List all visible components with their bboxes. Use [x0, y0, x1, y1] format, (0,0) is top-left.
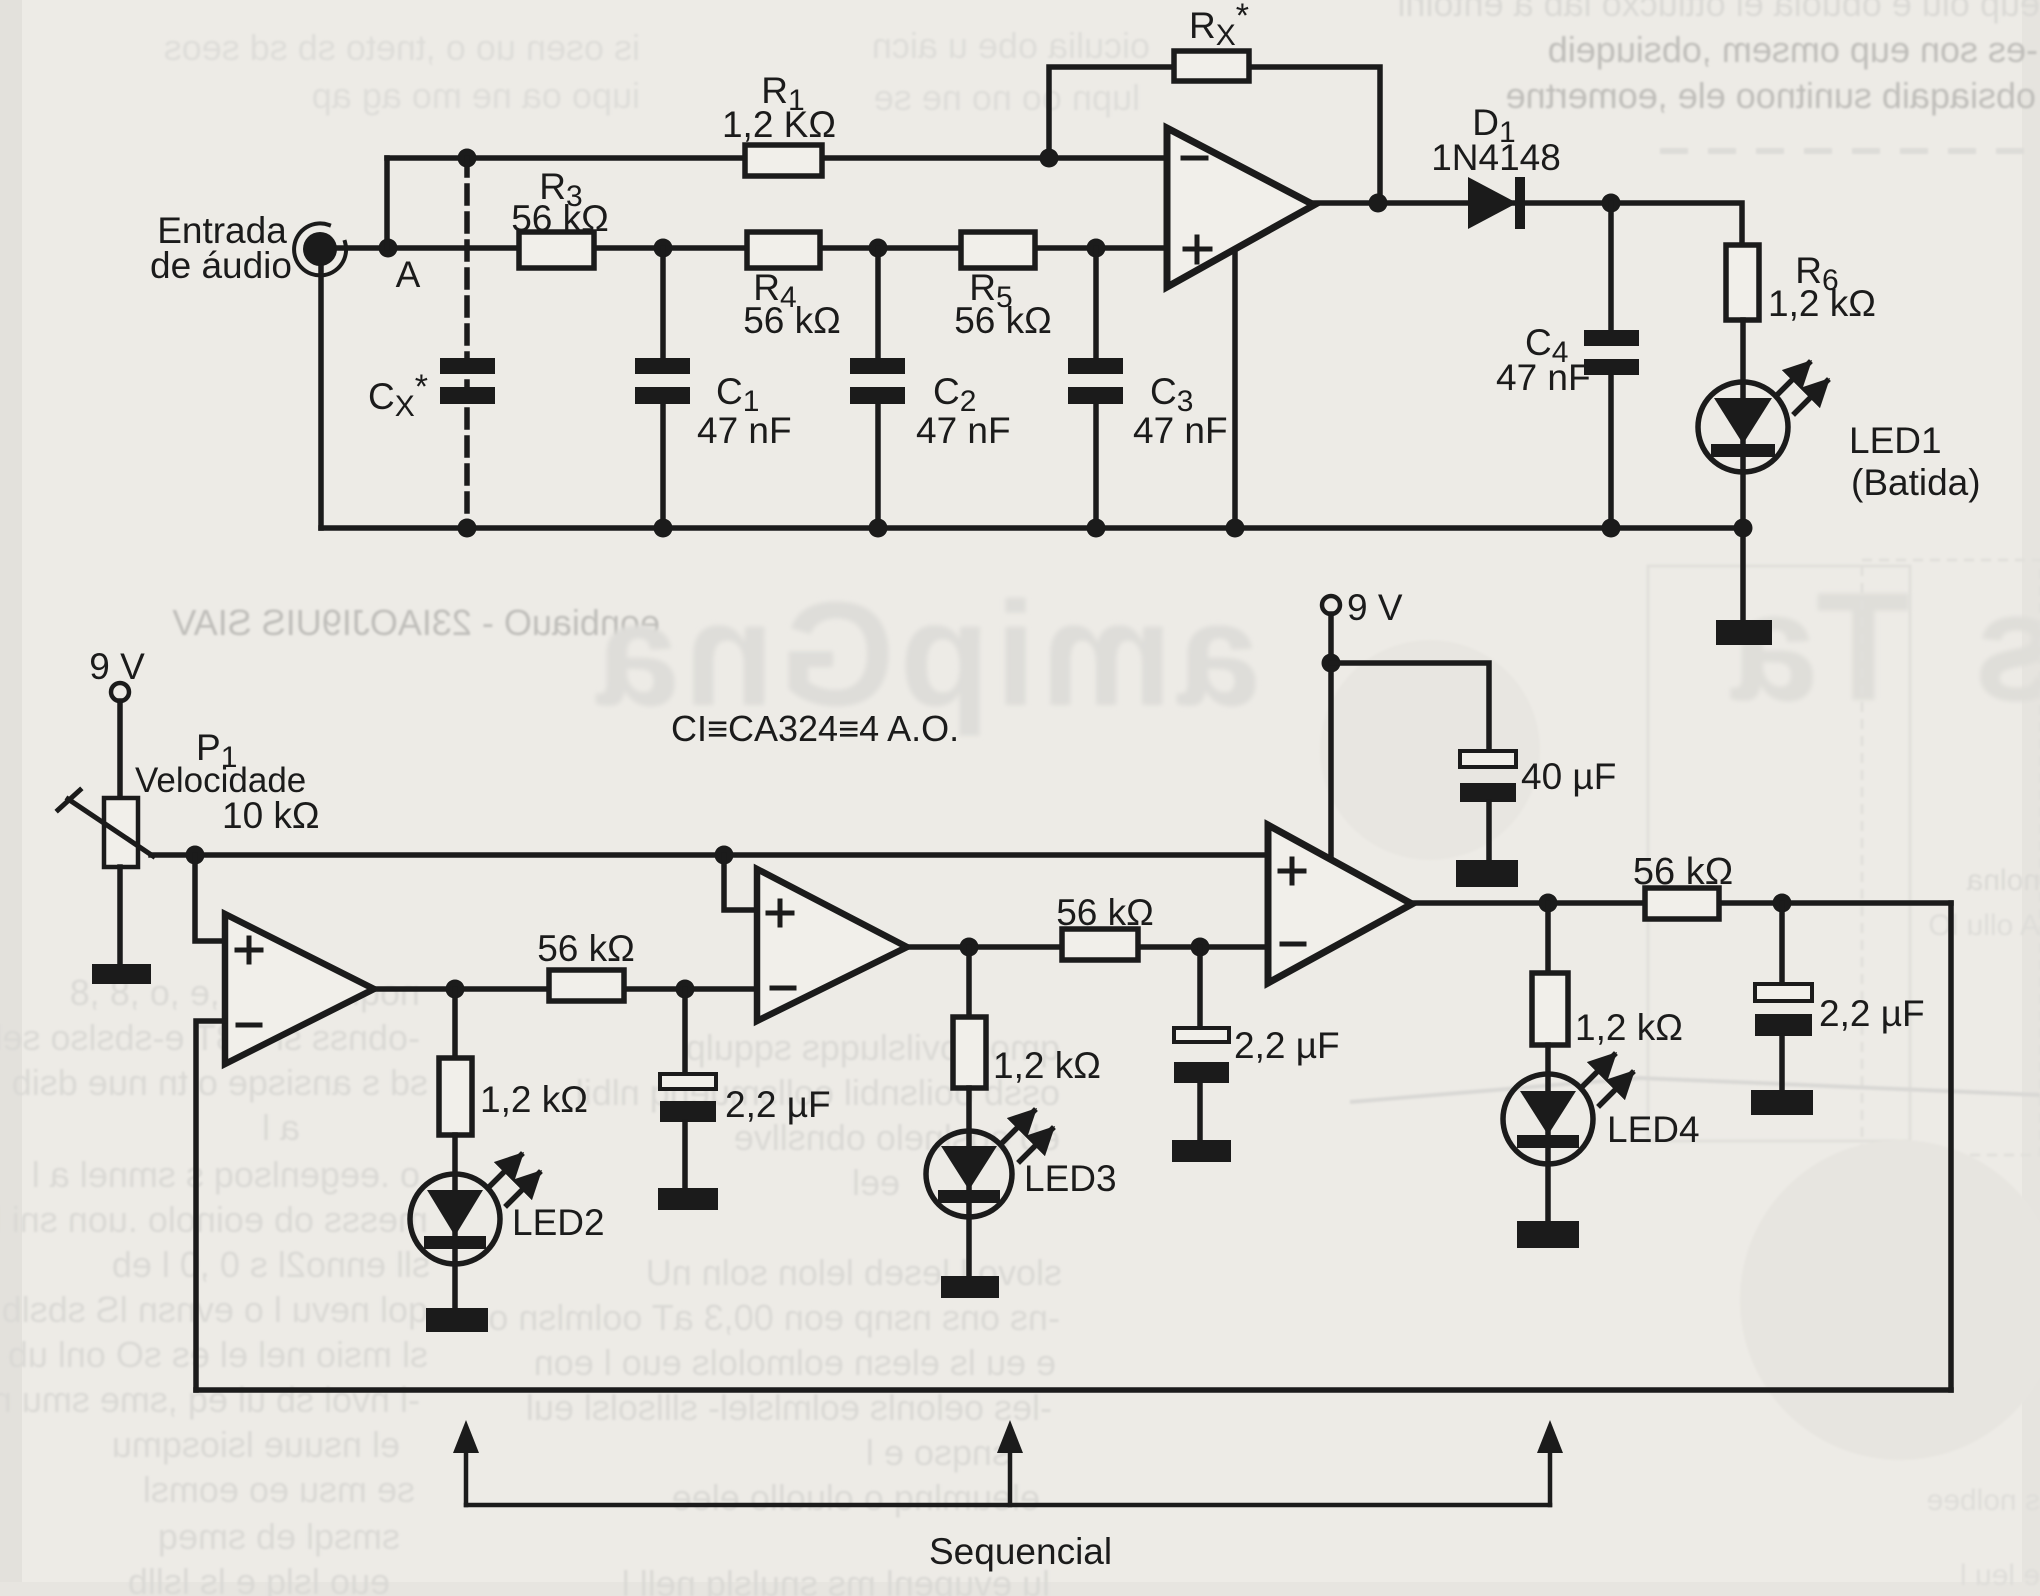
junction U2 output / LED2 branch: [446, 980, 465, 999]
capacitor 2,2 uF stage2: [1174, 947, 1340, 1140]
svg-text:oiculia obe u aicn: oiculia obe u aicn: [872, 25, 1150, 66]
wire bottom sequencer rail: [196, 1387, 1951, 1393]
wire P1 bottom to ground: [117, 867, 123, 964]
svg-text:-l nvol sb ul eq ,sme smu nsq: -l nvol sb ul eq ,sme smu nsq: [0, 1379, 420, 1420]
svg-text:47 nF: 47 nF: [916, 410, 1011, 451]
junction 56k / C5 / U3 inverting: [676, 980, 695, 999]
svg-text:(Batida): (Batida): [1851, 462, 1981, 503]
svg-text:eel: eel: [852, 1162, 900, 1203]
junction dashed line top: [458, 149, 477, 168]
sequencer arrows: [453, 1420, 1563, 1572]
resistor 56 kOhm stage1-stage2: [537, 928, 635, 1001]
resistor R3 56 kOhm: [511, 166, 609, 268]
LED4: [1503, 1055, 1700, 1164]
wire R6 to LED1 to ground: [1740, 320, 1746, 622]
svg-text:1,2 kΩ: 1,2 kΩ: [993, 1045, 1101, 1086]
op-amp U4 oscillator stage 3: [1268, 825, 1412, 983]
wire main rail P1 wiper to op-amp U4 non-inverting input: [151, 852, 1268, 858]
ghost photo box right: [1648, 560, 2040, 1155]
svg-text:eleumlnq o oluollo elee: eleumlnq o oluollo elee: [672, 1477, 1040, 1518]
svg-text:iupo oa ne mo ag ap: iupo oa ne mo ag ap: [312, 75, 640, 116]
junction D1 cathode / C4: [1602, 194, 1621, 213]
junction 56k / C7 output node: [1773, 894, 1792, 913]
power terminal 9V left: [89, 646, 145, 701]
svg-text:1,2 kΩ: 1,2 kΩ: [480, 1079, 588, 1120]
svg-text:o .eegenlsoq s smnel a l: o .eegenlsoq s smnel a l: [32, 1154, 420, 1195]
svg-text:LED2: LED2: [512, 1202, 605, 1243]
junction rail C1: [654, 519, 673, 538]
power terminal 9V right: [1322, 587, 1403, 628]
svg-text:euo lslq e ls lsllb: euo lslq e ls lsllb: [128, 1561, 390, 1596]
svg-text:smsql eb smeq: smsql eb smeq: [158, 1516, 400, 1557]
svg-text:obsiaqaib sunitnoo ele ,eomert: obsiaqaib sunitnoo ele ,eomertne: [1506, 75, 2036, 116]
wire 9V to 40uF: [1331, 663, 1489, 751]
resistor 1,2 kOhm LED4: [1532, 903, 1683, 1048]
svg-text:47 nF: 47 nF: [1133, 410, 1228, 451]
ground symbol C7: [1751, 1090, 1813, 1115]
wire 9V right to U4 V+ pin: [1328, 614, 1334, 858]
capacitor 2,2 uF stage1: [660, 989, 831, 1188]
ground symbol LED2: [426, 1308, 488, 1332]
junction U4 output / LED4 branch: [1539, 894, 1558, 913]
svg-text:qol nevu l o evnsn lS sbslb: qol nevu l o evnsn lS sbslb: [2, 1289, 428, 1330]
capacitor 2,2 uF stage3: [1755, 903, 1925, 1090]
svg-text:nolna: nolna: [1966, 864, 2040, 897]
LED3: [926, 1111, 1117, 1217]
wire 9V to P1: [117, 701, 123, 798]
svg-text:LED1: LED1: [1849, 420, 1942, 461]
wire connector ground drop: [318, 267, 324, 528]
resistor 56 kOhm stage2-stage3: [1056, 892, 1154, 960]
svg-text:sl msio nel el es sO onl ub: sl msio nel el es sO onl ub: [8, 1334, 428, 1375]
ground symbol LED3: [941, 1276, 999, 1298]
wire op-amp U1 V- pin to ground rail: [1232, 250, 1238, 528]
ground symbol LED4: [1517, 1221, 1579, 1248]
wire node A up to inverting line: [384, 158, 390, 248]
svg-text:A: A: [396, 254, 421, 295]
svg-text:10 kΩ: 10 kΩ: [222, 795, 320, 836]
junction RX tap on inverting line: [1040, 149, 1059, 168]
wire inverting input line: [387, 155, 1167, 161]
junction U3 output / LED3 branch: [960, 938, 979, 957]
svg-text:-ns ons nsnp eon 00,3 aT oolml: -ns ons nsnp eon 00,3 aT oolmlsn on: [468, 1297, 1060, 1338]
wire LED2 column: [452, 1135, 458, 1308]
node A: [379, 239, 421, 296]
svg-text:e leu l: e leu l: [1960, 1559, 2040, 1592]
junction 9V / 40uF branch: [1322, 654, 1341, 673]
resistor R4 56 kOhm: [743, 232, 841, 341]
junction R4/C2: [869, 239, 888, 258]
ground rail of input filter: [321, 525, 1743, 531]
LED1 (Batida): [1698, 363, 1981, 503]
junction R5/C3: [1087, 239, 1106, 258]
capacitor CX*: [368, 358, 495, 423]
small right column bleed-through: [1927, 864, 2040, 1592]
svg-text:eonbiauO - 23IAOJI9UIS SIAV: eonbiauO - 23IAOJI9UIS SIAV: [172, 602, 660, 643]
svg-text:s Ta: s Ta: [1721, 560, 2040, 733]
resistor 1,2 kOhm LED2: [439, 989, 588, 1135]
junction rail C3: [1087, 519, 1106, 538]
svg-text:slovo l leseb lelon soln nU: slovo l leseb lelon soln nU: [646, 1252, 1062, 1293]
svg-text:1,2 kΩ: 1,2 kΩ: [1575, 1007, 1683, 1048]
resistor 56 kOhm stage3 output: [1633, 851, 1733, 919]
resistor R5 56 kOhm: [954, 232, 1052, 341]
svg-text:se msu eo eomsl: se msu eo eomsl: [143, 1469, 415, 1510]
junction rail C4: [1602, 519, 1621, 538]
wire U1 output to D1 and R6: [1314, 203, 1742, 245]
ground symbol 40uF: [1456, 860, 1518, 887]
wire dashed CX branch: [464, 158, 470, 528]
wire audio input line to op-amp non-inverting input: [337, 245, 1167, 251]
wire to U2 non-inverting input: [195, 855, 225, 941]
resistor R1 1,2 KOhm: [722, 70, 836, 176]
wire RX feedback loop: [1049, 67, 1380, 200]
svg-text:56 kΩ: 56 kΩ: [1633, 851, 1733, 893]
svg-text:56 kΩ: 56 kΩ: [954, 300, 1052, 341]
svg-text:1,2 kΩ: 1,2 kΩ: [1768, 283, 1876, 324]
svg-text:s nolbee: s nolbee: [1927, 1484, 2040, 1517]
wire U2 output line: [374, 986, 757, 992]
svg-text:9 V: 9 V: [1347, 587, 1403, 628]
junction R3/C1: [654, 239, 673, 258]
svg-text:56 kΩ: 56 kΩ: [1056, 892, 1154, 933]
op-amp U2 oscillator stage 1: [225, 914, 374, 1064]
capacitor 40 uF decoupling: [1460, 751, 1616, 860]
wire U4 output line: [1412, 900, 1951, 906]
junction rail LED1: [1734, 519, 1753, 538]
potentiometer P1 Velocidade 10 kOhm: [58, 727, 320, 867]
junction rail CX: [458, 519, 477, 538]
faint crease bottom right: [1350, 1078, 2040, 1102]
svg-text:e eu ls elesn eolmolols euo l: e eu ls elesn eolmolols euo l eon: [534, 1342, 1056, 1383]
svg-text:el nsuue lsiosqmu: el nsuue lsiosqmu: [112, 1424, 400, 1465]
svg-text:snqso e l: snqso e l: [866, 1432, 1010, 1473]
svg-text:de áudio: de áudio: [150, 245, 292, 286]
wire right rail up to U4 output net: [1948, 903, 1954, 1390]
junction 56k / C6 / U4 inverting: [1191, 938, 1210, 957]
svg-text:Sequencial: Sequencial: [929, 1531, 1112, 1572]
svg-text:2,2 µF: 2,2 µF: [1234, 1025, 1340, 1066]
junction U1 output / RX feedback: [1369, 194, 1388, 213]
svg-text:2,2 µF: 2,2 µF: [725, 1084, 831, 1125]
svg-text:eup olu e obuola el ottiucxo l: eup olu e obuola el ottiucxo lab a entol…: [1398, 0, 2040, 24]
svg-text:LED3: LED3: [1024, 1158, 1117, 1199]
svg-text:1N4148: 1N4148: [1431, 137, 1561, 178]
diode D1 1N4148: [1431, 102, 1561, 229]
capacitor C4 47 nF: [1496, 203, 1639, 528]
svg-text:A ollu lO: A ollu lO: [1928, 909, 2040, 942]
ground symbol C6: [1172, 1140, 1231, 1162]
svg-text:40 µF: 40 µF: [1521, 756, 1616, 797]
ground symbol LED1: [1716, 620, 1772, 645]
capacitor C3 47 nF: [1068, 248, 1228, 528]
svg-text:a l: a l: [262, 1107, 300, 1148]
resistor RX* feedback: [1174, 0, 1249, 81]
junction rail / U2 non-inverting: [186, 846, 205, 865]
resistor 1,2 kOhm LED3: [953, 947, 1101, 1088]
junction rail / U3 non-inverting: [715, 846, 734, 865]
wire to U3 non-inverting input: [724, 855, 757, 910]
svg-text:-les oelonls eolmlslel- slllso: -les oelonls eolmlslel- slllsolsl eul: [526, 1387, 1052, 1428]
wire U3 output line: [907, 944, 1268, 950]
svg-text:56 kΩ: 56 kΩ: [743, 300, 841, 341]
svg-text:47 nF: 47 nF: [697, 410, 792, 451]
connector J1 audio input (Entrada de audio): [150, 210, 346, 286]
capacitor C2 47 nF: [850, 248, 1011, 528]
svg-text:messs ob eoinolo .uon sni l s: messs ob eoinolo .uon sni l s T: [0, 1199, 428, 1240]
resistor R6 1,2 kOhm: [1726, 245, 1876, 324]
svg-text:sll enno2l s 0 ,0 l eb: sll enno2l s 0 ,0 l eb: [112, 1244, 430, 1285]
faint circle ghost bottom right: [1740, 1140, 2040, 1460]
wire LED4 column: [1545, 1045, 1551, 1221]
svg-text:-es son eup omsem ,obsiuqeib: -es son eup omsem ,obsiuqeib: [1548, 29, 2038, 70]
svg-text:is osen uo o ,tneto sb sd seos: is osen uo o ,tneto sb sd seos: [164, 27, 640, 68]
junction rail U1 V-: [1226, 519, 1245, 538]
ground symbol C5: [658, 1188, 718, 1210]
capacitor C1 47 nF: [635, 248, 792, 528]
wire LED3 column: [966, 1088, 972, 1276]
svg-text:lupn oo no ne se: lupn oo no ne se: [874, 77, 1140, 118]
ground symbol P1: [92, 964, 151, 984]
junction rail C2: [869, 519, 888, 538]
svg-text:56 kΩ: 56 kΩ: [537, 928, 635, 969]
op-amp U1 comparator: [1167, 128, 1314, 287]
op-amp U3 oscillator stage 2: [757, 869, 907, 1021]
svg-text:sd s ansisqe o tn nue dsib: sd s ansisqe o tn nue dsib: [12, 1062, 428, 1103]
svg-text:56 kΩ: 56 kΩ: [511, 198, 609, 239]
svg-text:9 V: 9 V: [89, 646, 145, 687]
svg-text:LED4: LED4: [1607, 1109, 1700, 1150]
LED2: [410, 1155, 605, 1264]
svg-text:1,2 KΩ: 1,2 KΩ: [722, 104, 836, 145]
svg-text:47 nF: 47 nF: [1496, 357, 1591, 398]
svg-text:CI≡CA324≡4 A.O.: CI≡CA324≡4 A.O.: [671, 708, 959, 749]
svg-text:2,2 µF: 2,2 µF: [1819, 993, 1925, 1034]
wire U2 inverting input feedback to bottom rail: [196, 1021, 225, 1390]
